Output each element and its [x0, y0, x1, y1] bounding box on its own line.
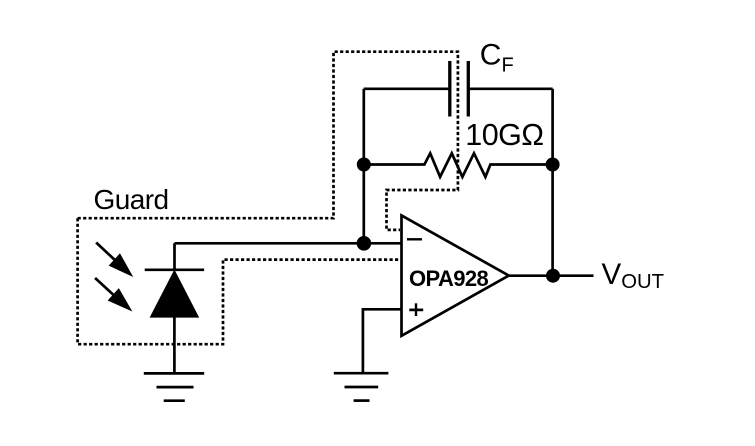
svg-text:Guard: Guard [94, 184, 169, 215]
ground op-amp [334, 373, 389, 400]
svg-text:OPA928: OPA928 [409, 266, 489, 291]
wire photodiode to inverting input [175, 242, 402, 245]
guard trace upper loop [78, 52, 458, 230]
svg-text:VOUT: VOUT [602, 258, 665, 293]
node resistor-output junction [546, 158, 560, 172]
op-amp U1 body [402, 215, 509, 335]
resistor RF 10GOhm [364, 153, 553, 177]
svg-text:10GΩ: 10GΩ [465, 118, 543, 152]
capacitor CF [450, 61, 469, 117]
wire photodiode bottom lead [173, 317, 176, 374]
node inverting input [357, 236, 372, 251]
wire left vertical from feedback to inverting node [362, 89, 365, 244]
node output [546, 269, 560, 283]
photodiode D1 body [150, 270, 200, 318]
op-amp plus sign [409, 303, 423, 316]
wire top feedback branch left [364, 87, 450, 90]
op-amp minus sign [407, 238, 422, 240]
svg-text:CF: CF [480, 38, 514, 76]
photodiode D1 cathode bar [145, 268, 204, 271]
wire photodiode top lead [173, 243, 176, 270]
wire top feedback branch right [468, 87, 552, 90]
ground photodiode [144, 373, 204, 400]
node inverting-resistor junction [357, 158, 371, 172]
light arrow 1 [96, 243, 130, 275]
guard trace lower loop [78, 218, 400, 344]
wire noninverting input to ground [363, 309, 402, 373]
light arrow 2 [95, 278, 129, 309]
wire output [509, 274, 594, 277]
wire right vertical from feedback to output node [551, 89, 554, 276]
